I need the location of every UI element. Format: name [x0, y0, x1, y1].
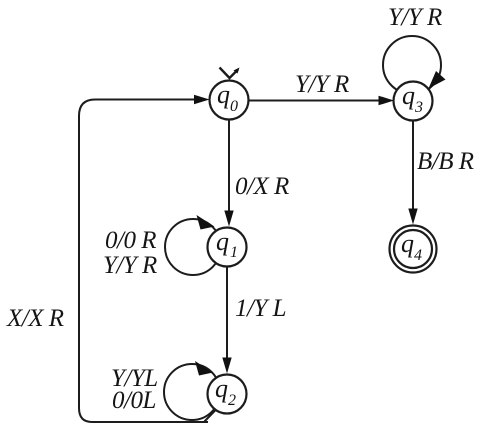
self-loop q1 — [165, 219, 221, 275]
svg-text:Y/Y R: Y/Y R — [103, 252, 157, 279]
arrowhead into q1 — [224, 211, 233, 227]
svg-text:0/X R: 0/X R — [235, 173, 289, 200]
svg-text:q: q — [401, 229, 414, 258]
svg-text:Y/Y R: Y/Y R — [295, 71, 349, 98]
start-state marker above q0 — [220, 68, 239, 79]
arrowhead into q2 — [222, 358, 231, 374]
state q1 — [208, 228, 247, 267]
state q3 — [394, 82, 433, 121]
svg-text:q: q — [402, 81, 415, 110]
svg-text:q: q — [217, 80, 230, 109]
svg-text:0/0 R: 0/0 R — [105, 227, 156, 254]
arrowhead self-loop q1 — [197, 215, 215, 230]
arrowhead self-loop q2 — [195, 361, 213, 376]
wire q0 to q3 — [249, 100, 381, 102]
wire q0 to q1 — [228, 120, 230, 214]
svg-text:q: q — [216, 227, 229, 256]
arrowhead into q3 — [379, 96, 395, 106]
wire q1 to q2 — [226, 267, 228, 361]
svg-text:4: 4 — [414, 247, 422, 264]
arrowhead into q0 — [194, 95, 210, 105]
state q4 (accepting, double circle) — [390, 226, 437, 273]
arrowhead into q4 — [408, 209, 417, 225]
svg-text:1/Y L: 1/Y L — [235, 295, 286, 322]
svg-text:0: 0 — [230, 98, 238, 115]
svg-text:1: 1 — [230, 244, 238, 261]
arrowhead self-loop q3 — [429, 71, 446, 89]
wire q3 to q4 — [412, 121, 414, 212]
state q0 — [210, 81, 249, 120]
svg-text:B/B R: B/B R — [417, 148, 474, 175]
svg-text:0/0L: 0/0L — [112, 387, 156, 414]
self-loop q3 — [383, 36, 441, 94]
svg-text:3: 3 — [414, 99, 423, 116]
svg-text:q: q — [215, 374, 228, 403]
svg-text:X/X R: X/X R — [6, 305, 64, 332]
svg-text:2: 2 — [228, 392, 236, 409]
svg-text:Y/Y R: Y/Y R — [388, 4, 442, 31]
self-loop q2 — [164, 364, 220, 420]
state q2 — [208, 375, 247, 414]
wire q2 to q0 (left return path) — [79, 100, 217, 423]
